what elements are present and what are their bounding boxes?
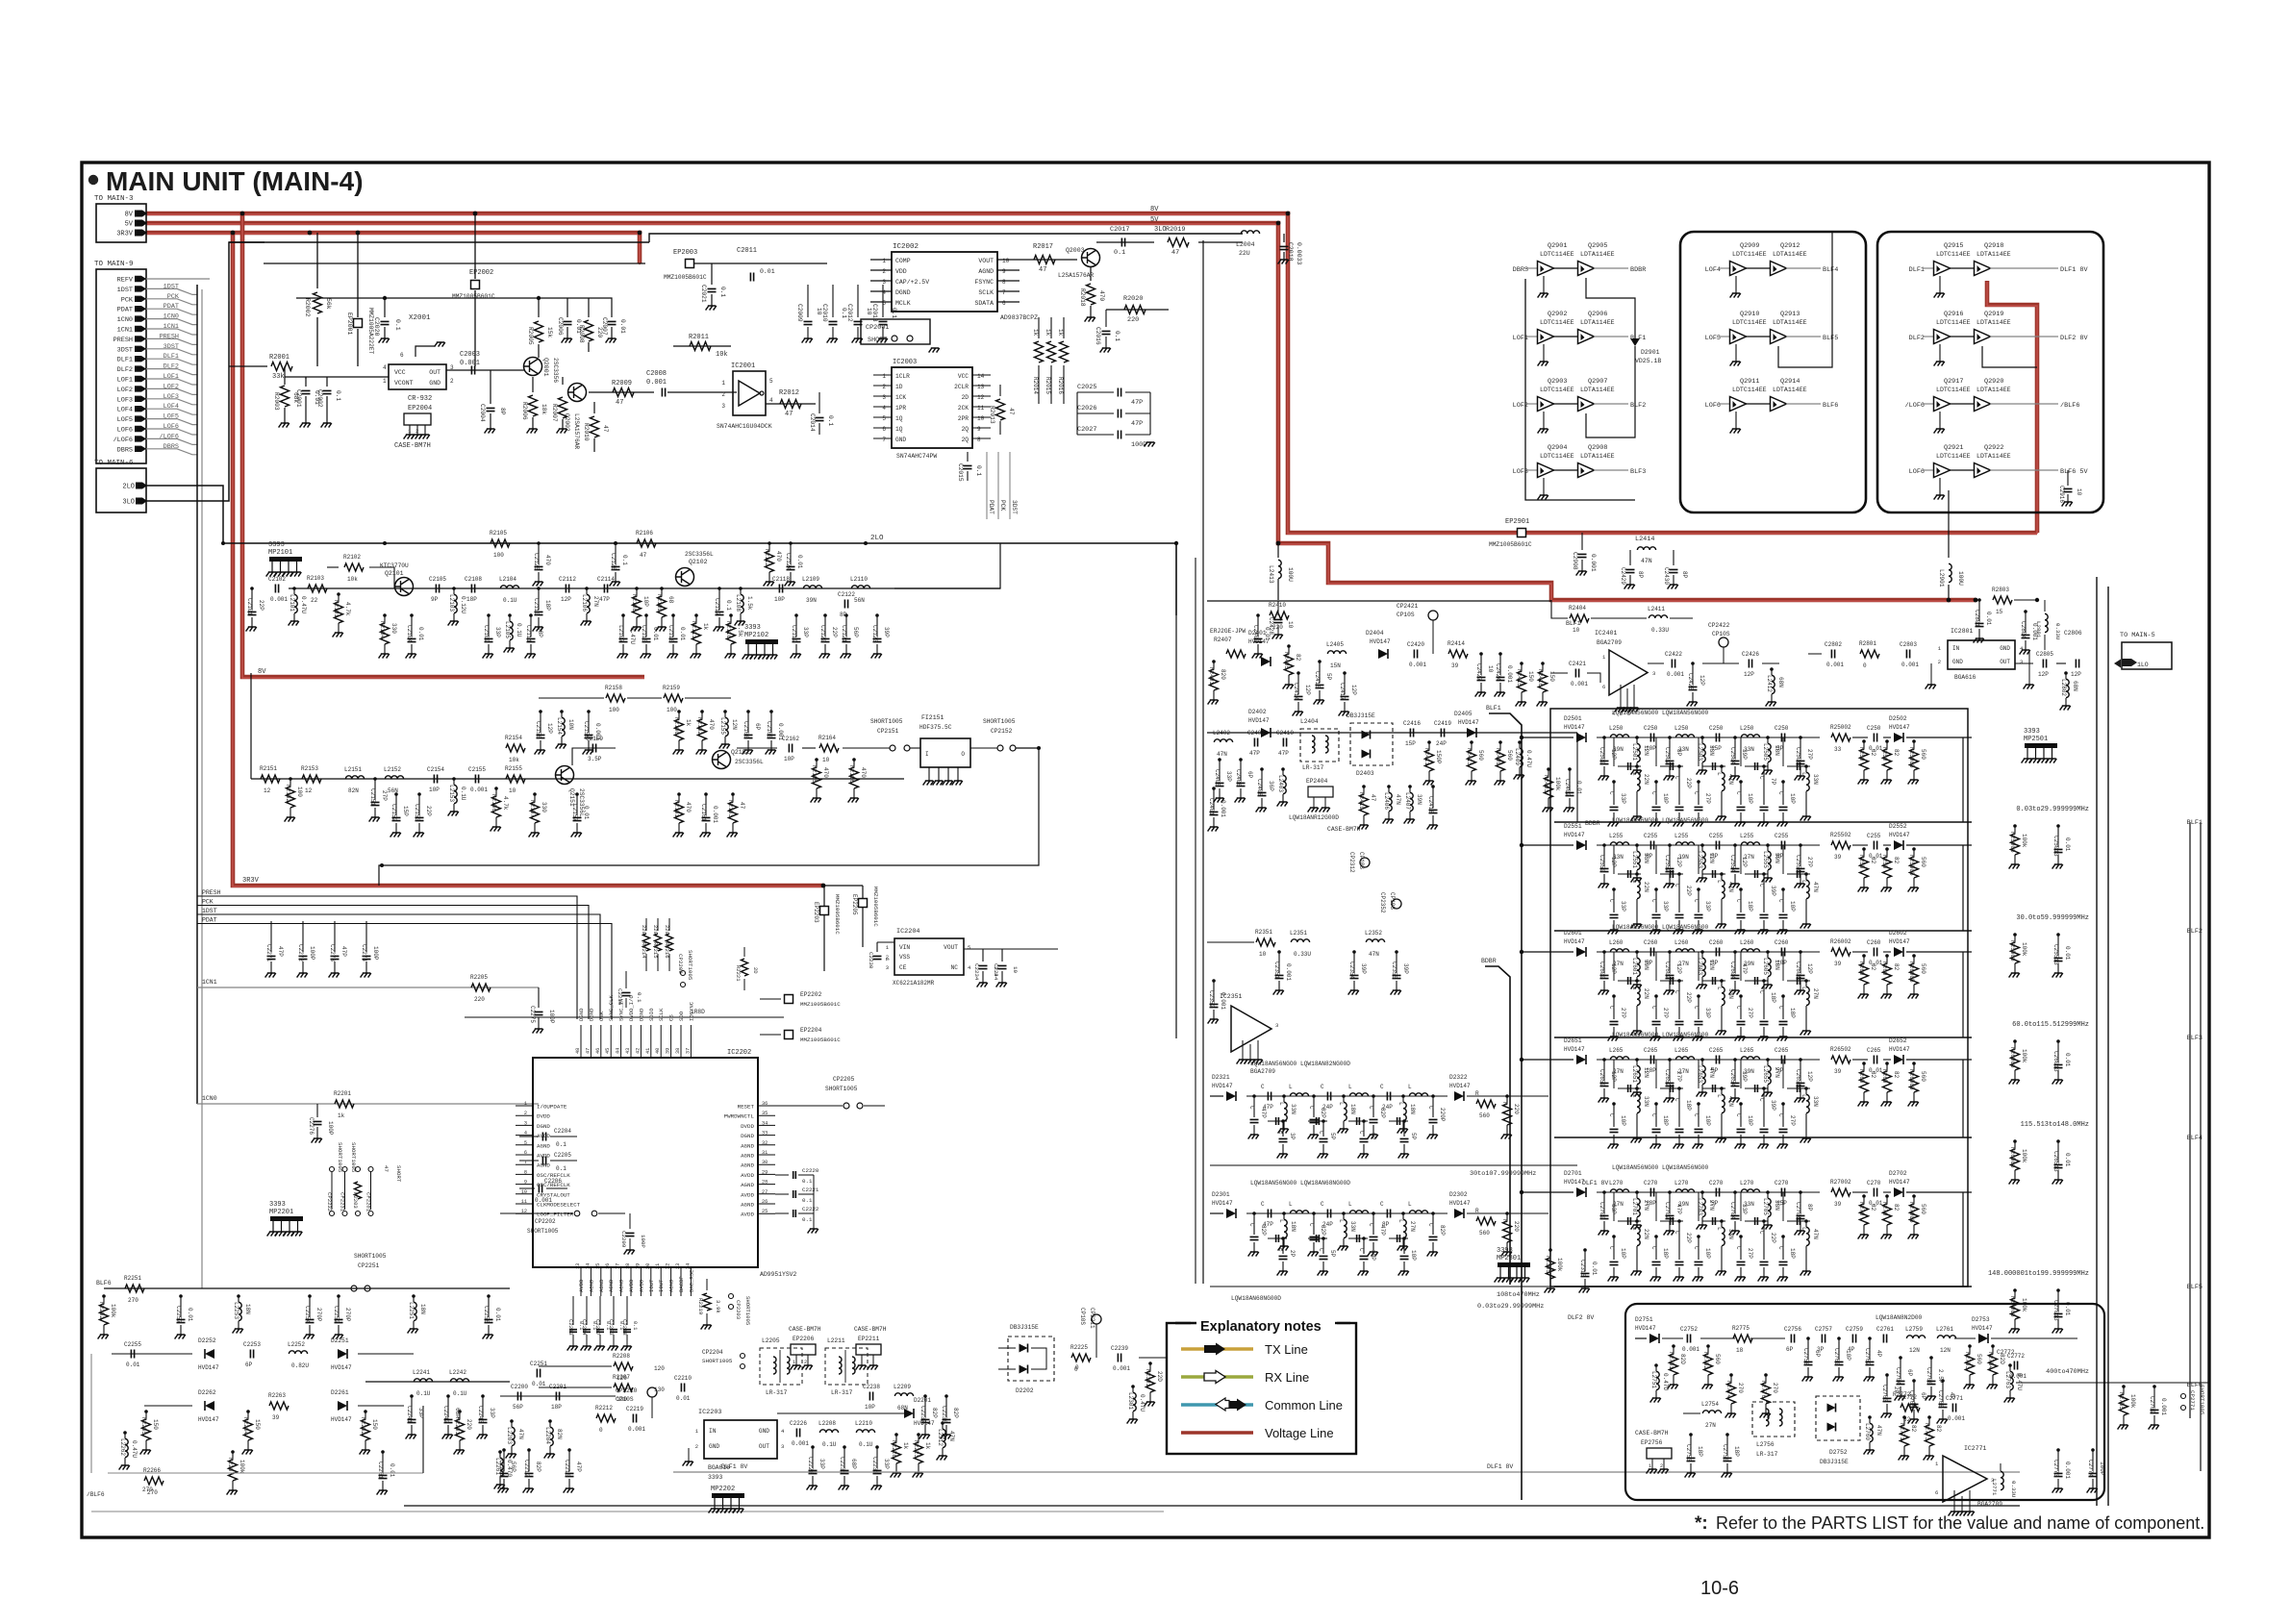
svg-text:R26005: R26005	[1908, 962, 1915, 983]
C2115 0.01	[644, 613, 648, 617]
svg-text:3DST: 3DST	[164, 343, 179, 351]
svg-text:C2156: C2156	[535, 721, 541, 738]
C2804 0.001	[2024, 610, 2027, 613]
svg-text:L2801: L2801	[2035, 621, 2042, 638]
svg-text:100: 100	[609, 707, 619, 713]
R2755 100k	[2122, 1385, 2126, 1388]
R2201 1k	[335, 1100, 354, 1108]
svg-text:VDD: VDD	[895, 268, 907, 275]
svg-text:LOF4: LOF4	[117, 407, 133, 414]
svg-text:C2157: C2157	[571, 804, 578, 821]
R2401 820	[1212, 660, 1216, 663]
svg-text:1Q: 1Q	[895, 415, 903, 422]
svg-text:D2301: D2301	[1212, 1191, 1230, 1198]
group1 outline	[1525, 279, 1635, 500]
svg-text:IN: IN	[1952, 645, 1960, 652]
svg-text:5: 5	[968, 944, 970, 951]
R2157 330	[533, 792, 537, 796]
svg-text:BLF2: BLF2	[1630, 402, 1646, 410]
svg-text:560: 560	[1479, 1112, 1490, 1119]
svg-text:R2301: R2301	[1145, 1369, 1151, 1387]
svg-text:10P: 10P	[1370, 1250, 1376, 1261]
svg-text:R2263: R2263	[268, 1392, 286, 1399]
L2108	[739, 587, 743, 590]
svg-text:18P: 18P	[1789, 1008, 1796, 1018]
svg-text:C: C	[1758, 776, 1765, 780]
svg-text:18P: 18P	[1685, 1100, 1692, 1111]
svg-text:LOF6: LOF6	[164, 423, 179, 431]
svg-text:R: R	[1501, 1219, 1508, 1223]
svg-text:KTC3770U: KTC3770U	[380, 562, 409, 569]
svg-text:10P: 10P	[1620, 1248, 1626, 1259]
svg-text:30: 30	[762, 1160, 768, 1165]
svg-text:R2153: R2153	[301, 765, 318, 772]
svg-text:5P: 5P	[1325, 673, 1332, 681]
svg-text:18N: 18N	[244, 1304, 251, 1314]
svg-text:C: C	[1261, 1201, 1265, 1208]
svg-text:10: 10	[977, 415, 985, 422]
svg-text:0.1: 0.1	[725, 600, 732, 611]
svg-text:220: 220	[664, 925, 670, 935]
svg-text:100P: 100P	[640, 1235, 646, 1248]
svg-text:6: 6	[882, 426, 886, 433]
svg-text:68: 68	[667, 596, 674, 604]
svg-text:15P: 15P	[1776, 1200, 1787, 1207]
svg-text:27N: 27N	[1678, 1068, 1689, 1075]
svg-text:18P: 18P	[1733, 1446, 1740, 1457]
svg-text:3: 3	[524, 1120, 527, 1126]
gnd ic2801	[1930, 663, 1932, 685]
svg-text:7: 7	[882, 437, 886, 443]
svg-text:C2706: C2706	[1795, 1202, 1801, 1219]
ferrite EP2205	[862, 886, 864, 947]
svg-text:C2760: C2760	[1833, 1348, 1840, 1365]
svg-text:100P: 100P	[309, 946, 315, 961]
svg-text:GND: GND	[759, 1428, 769, 1435]
svg-text:C: C	[1398, 1131, 1405, 1135]
svg-text:C2416: C2416	[1403, 720, 1421, 727]
svg-text:8P: 8P	[1806, 1204, 1813, 1212]
svg-text:6P: 6P	[1246, 771, 1253, 779]
svg-text:C250: C250	[1644, 725, 1658, 732]
svg-text:6P: 6P	[754, 723, 761, 731]
svg-text:100P: 100P	[2099, 1462, 2105, 1476]
svg-text:1k: 1k	[1057, 329, 1064, 337]
svg-text:100k: 100k	[2021, 1298, 2027, 1312]
C2758 6P	[1806, 1337, 1810, 1340]
svg-text:L: L	[1278, 1102, 1285, 1106]
svg-text:C: C	[1650, 899, 1657, 903]
svg-text:LDTC114EE: LDTC114EE	[1540, 251, 1574, 258]
C2166 6P	[746, 710, 750, 713]
voltage line 8V drop to RF section	[242, 213, 644, 677]
svg-text:47N: 47N	[1369, 951, 1379, 958]
svg-text:C2354: C2354	[1348, 962, 1355, 979]
BLF row feeds	[1522, 737, 1554, 738]
svg-text:AVDD: AVDD	[628, 1279, 635, 1292]
svg-text:R2228: R2228	[891, 1440, 897, 1458]
svg-text:2: 2	[882, 384, 886, 390]
C2766 2.5P	[1929, 1356, 1933, 1360]
R2103 22	[308, 585, 327, 592]
svg-text:LQW18AN8N2D00: LQW18AN8N2D00	[1876, 1314, 1923, 1321]
svg-text:R2013: R2013	[989, 406, 995, 424]
svg-text:C2241: C2241	[406, 1406, 413, 1423]
svg-text:D2262: D2262	[198, 1389, 216, 1396]
R2410 220	[1270, 612, 1289, 619]
L2104 0.1U	[500, 586, 518, 588]
C2801 0.01	[1977, 598, 1981, 602]
svg-text:NC: NC	[951, 964, 959, 971]
svg-text:L2414: L2414	[1635, 536, 1654, 543]
svg-text:EP2204: EP2204	[800, 1027, 822, 1034]
svg-text:R2009: R2009	[612, 380, 632, 387]
svg-text:D2501: D2501	[1564, 715, 1582, 722]
svg-text:C2004: C2004	[479, 404, 486, 422]
svg-text:C2500: C2500	[1599, 747, 1605, 764]
svg-text:C2552: C2552	[1664, 855, 1671, 872]
svg-text:L2756: L2756	[1756, 1441, 1775, 1448]
svg-text:0.001: 0.001	[1113, 1365, 1130, 1372]
svg-text:CP2312: CP2312	[1348, 852, 1355, 873]
main wire blf6	[104, 1287, 510, 1289]
svg-text:8V: 8V	[125, 212, 134, 219]
ferrite EP2203	[823, 886, 825, 971]
svg-text:L255: L255	[1609, 833, 1624, 839]
svg-text:EP2404: EP2404	[1306, 778, 1328, 785]
svg-text:AGND: AGND	[741, 1182, 754, 1188]
svg-text:27N: 27N	[1744, 854, 1754, 861]
svg-text:CP2206: CP2206	[677, 954, 684, 974]
C2021 0.1	[711, 263, 713, 285]
svg-text:EP2003: EP2003	[673, 249, 697, 257]
C2215 47P	[567, 1448, 571, 1452]
svg-text:LDTC114EE: LDTC114EE	[1936, 319, 1971, 326]
svg-text:3393: 3393	[1497, 1247, 1513, 1255]
svg-text:39P: 39P	[1360, 963, 1367, 974]
svg-text:R26006: R26006	[2009, 1047, 2016, 1068]
svg-text:L2701: L2701	[1631, 1198, 1638, 1215]
svg-text:C2773: C2773	[2052, 1460, 2059, 1477]
R2212 0	[596, 1414, 616, 1422]
svg-text:C: C	[1380, 1201, 1384, 1208]
C2122 8P	[844, 600, 847, 609]
svg-text:C2763: C2763	[1881, 1385, 1888, 1402]
svg-text:VOUT: VOUT	[944, 944, 958, 951]
svg-text:DLF2 8V: DLF2 8V	[2060, 335, 2088, 342]
svg-text:47N: 47N	[1217, 751, 1227, 758]
svg-text:39N: 39N	[1744, 1068, 1754, 1075]
svg-text:39P: 39P	[1402, 963, 1409, 974]
svg-text:5P: 5P	[1711, 1200, 1719, 1207]
svg-text:C2006: C2006	[557, 317, 564, 336]
svg-text:L2101: L2101	[289, 594, 295, 612]
svg-text:Common Line: Common Line	[1265, 1398, 1343, 1412]
svg-text:470: 470	[544, 555, 551, 565]
svg-text:5V: 5V	[1150, 216, 1159, 224]
svg-text:R2154: R2154	[505, 735, 522, 741]
svg-text:1DST: 1DST	[117, 287, 133, 294]
L2109 39N	[803, 586, 821, 588]
Q2003 L2SA1576AR	[1082, 249, 1100, 267]
svg-text:LOOP_FILTER: LOOP_FILTER	[537, 1212, 574, 1218]
svg-text:L2253: L2253	[233, 1302, 239, 1319]
svg-text:36: 36	[762, 1101, 768, 1107]
C2161 0.001	[704, 792, 708, 796]
C2014 0.1	[818, 392, 820, 413]
svg-text:D2502: D2502	[1889, 715, 1907, 722]
svg-text:OSK: OSK	[598, 1011, 605, 1021]
svg-text:10N: 10N	[567, 719, 574, 730]
svg-text:10P: 10P	[1646, 745, 1656, 752]
svg-text:R2019: R2019	[1166, 226, 1185, 234]
C2418 cap	[1431, 785, 1435, 788]
svg-text:220: 220	[474, 996, 485, 1003]
svg-text:47: 47	[785, 411, 793, 418]
svg-text:L: L	[1800, 880, 1807, 884]
RF chain 2 main line	[251, 778, 904, 780]
svg-text:LDTC114EE: LDTC114EE	[1540, 453, 1574, 460]
R2261 220	[458, 1410, 462, 1413]
svg-text:33P: 33P	[494, 627, 501, 637]
svg-text:47: 47	[1171, 249, 1179, 257]
svg-text:35: 35	[762, 1111, 768, 1116]
svg-text:5P: 5P	[1711, 960, 1719, 966]
svg-text:C2422: C2422	[1665, 651, 1682, 658]
svg-text:D2751: D2751	[1635, 1316, 1653, 1323]
svg-text:12P: 12P	[561, 596, 571, 603]
svg-text:560: 560	[1920, 1071, 1926, 1082]
svg-text:BLF1: BLF1	[1566, 620, 1581, 627]
svg-text:8P: 8P	[840, 612, 847, 618]
svg-text:47N: 47N	[1812, 1229, 1819, 1239]
svg-text:0.001: 0.001	[1590, 554, 1597, 572]
svg-text:R25005: R25005	[1908, 747, 1915, 768]
svg-text:R2007: R2007	[551, 404, 558, 422]
svg-text:L2551: L2551	[1631, 851, 1638, 868]
svg-text:100k: 100k	[2129, 1394, 2136, 1409]
svg-text:HVD147: HVD147	[1564, 724, 1585, 731]
svg-text:0.1: 0.1	[802, 1197, 813, 1204]
svg-text:270: 270	[1772, 1383, 1778, 1393]
BLF collection bus	[1489, 713, 1522, 1500]
svg-text:47N: 47N	[1641, 558, 1652, 564]
svg-text:L2404: L2404	[1300, 718, 1319, 725]
svg-text:R2410: R2410	[1269, 602, 1286, 609]
svg-text:12P: 12P	[1806, 963, 1813, 974]
C2243 33P	[481, 1394, 485, 1398]
svg-text:18P: 18P	[1662, 1115, 1669, 1126]
svg-text:OSC/REFCLK: OSC/REFCLK	[537, 1182, 570, 1188]
C2261 0.01	[381, 1450, 385, 1454]
svg-text:100k: 100k	[110, 1304, 116, 1318]
svg-text:3: 3	[882, 279, 886, 286]
svg-text:82: 82	[1870, 963, 1876, 971]
svg-text:LR-317: LR-317	[766, 1389, 788, 1396]
svg-text:39N: 39N	[1613, 746, 1624, 753]
svg-text:39: 39	[272, 1414, 280, 1421]
C2200 56P	[517, 1392, 520, 1401]
wire center	[365, 1381, 510, 1383]
svg-text:0.1U: 0.1U	[822, 1441, 837, 1448]
svg-text:C2230: C2230	[868, 952, 874, 969]
svg-text:L2262: L2262	[119, 1438, 126, 1456]
svg-text:LR-317: LR-317	[1302, 764, 1324, 771]
svg-text:L: L	[1800, 1227, 1807, 1231]
svg-text:CRYSTALOUT: CRYSTALOUT	[537, 1191, 570, 1198]
L2412 68N	[1770, 667, 1774, 671]
svg-text:5P: 5P	[1646, 960, 1653, 966]
svg-text:12P: 12P	[2038, 671, 2049, 678]
svg-text:C2426: C2426	[1742, 651, 1759, 658]
svg-text:PDAT: PDAT	[117, 307, 133, 314]
svg-text:R2752: R2752	[1702, 1352, 1709, 1369]
R2001 33k	[229, 365, 267, 367]
svg-text:C260: C260	[1709, 939, 1724, 946]
svg-text:56k: 56k	[325, 298, 332, 310]
CP2001 SHORT	[861, 319, 930, 344]
svg-text:SHORT1005: SHORT1005	[350, 1142, 357, 1173]
svg-text:D2752: D2752	[1829, 1449, 1848, 1456]
C2257 0.01	[179, 1294, 183, 1298]
buffer interconnects	[1586, 278, 1635, 317]
R2006 18k	[532, 377, 534, 392]
svg-text:SHORT: SHORT	[868, 337, 887, 344]
C2428 10	[1277, 601, 1279, 615]
svg-text:LQW18AN68NG00D: LQW18AN68NG00D	[1231, 1295, 1281, 1302]
svg-text:L255: L255	[1674, 833, 1689, 839]
filter bank row BLF2	[1554, 844, 1573, 846]
svg-text:7: 7	[524, 1160, 527, 1165]
svg-text:L2154: L2154	[556, 717, 563, 735]
svg-text:27N: 27N	[1613, 1201, 1624, 1208]
svg-text:C2210: C2210	[674, 1375, 692, 1382]
svg-text:120: 120	[654, 1365, 665, 1372]
svg-text:5P: 5P	[1711, 1067, 1719, 1074]
svg-text:1CN1: 1CN1	[202, 979, 217, 986]
svg-text:C2804: C2804	[2020, 621, 2027, 638]
L2403 cap	[1281, 767, 1285, 771]
svg-text:0.01: 0.01	[619, 319, 626, 334]
svg-text:3: 3	[2020, 659, 2023, 665]
svg-text:1CN0: 1CN0	[164, 313, 179, 321]
svg-text:R2773: R2773	[1924, 1423, 1930, 1440]
svg-text:C2256: C2256	[483, 1306, 490, 1323]
svg-text:2SC3356L: 2SC3356L	[735, 759, 764, 765]
svg-text:8P: 8P	[1637, 571, 1644, 579]
svg-text:82: 82	[1870, 749, 1876, 757]
C2802 0.001	[1831, 650, 1834, 659]
C2112 12P	[566, 585, 568, 593]
svg-text:R2164: R2164	[818, 735, 836, 741]
R2262 150	[364, 1410, 367, 1413]
svg-text:0.001: 0.001	[1506, 665, 1513, 683]
transformer L2756 LR-317	[1752, 1402, 1795, 1437]
svg-text:0.01: 0.01	[1264, 627, 1271, 641]
svg-text:AD9951YSV2: AD9951YSV2	[760, 1271, 797, 1278]
svg-text:4: 4	[524, 1131, 527, 1137]
svg-text:4: 4	[769, 397, 773, 404]
D2262 HVD147	[205, 1401, 214, 1411]
svg-text:470: 470	[1098, 290, 1105, 301]
svg-text:LDTC114EE: LDTC114EE	[1936, 453, 1971, 460]
C2117	[718, 587, 721, 590]
svg-text:MMZ1005B601C: MMZ1005B601C	[800, 1037, 841, 1043]
C2419 24P	[1441, 729, 1444, 737]
C2006 0.01	[566, 306, 568, 317]
svg-text:C2151: C2151	[369, 788, 376, 806]
svg-text:0.47U: 0.47U	[1525, 750, 1532, 767]
svg-text:82P: 82P	[952, 1408, 959, 1418]
svg-text:3393: 3393	[268, 541, 285, 549]
svg-text:VCONT: VCONT	[394, 380, 414, 387]
svg-text:BDBR: BDBR	[1630, 266, 1646, 274]
svg-text:L265: L265	[1609, 1047, 1624, 1054]
svg-text:27P: 27P	[381, 790, 388, 801]
svg-text:C: C	[1777, 1113, 1784, 1117]
svg-text:56N: 56N	[854, 597, 865, 604]
C2430 8P	[1673, 550, 1674, 565]
svg-text:C: C	[1693, 791, 1699, 795]
svg-text:D2322: D2322	[1449, 1074, 1468, 1081]
svg-text:VSS: VSS	[899, 954, 910, 961]
R2002 56k	[316, 233, 318, 288]
svg-text:L2655: L2655	[1762, 1065, 1769, 1083]
svg-text:DVDD: DVDD	[741, 1123, 754, 1130]
svg-text:R2776: R2776	[1760, 1381, 1767, 1398]
svg-text:560: 560	[1920, 857, 1926, 867]
L2101 0.47U	[292, 587, 296, 590]
svg-text:R2015: R2015	[1045, 377, 1051, 394]
C2352 0.001	[1212, 979, 1216, 983]
svg-text:C2417: C2417	[1339, 683, 1346, 700]
RF chain 1 main line	[289, 587, 1000, 589]
svg-text:GND: GND	[895, 437, 906, 443]
svg-text:HVD147: HVD147	[1370, 638, 1391, 645]
svg-text:C2419: C2419	[1434, 720, 1451, 727]
svg-text:10P: 10P	[1845, 1350, 1851, 1361]
svg-text:IC2001: IC2001	[731, 362, 755, 370]
svg-text:8V: 8V	[1150, 206, 1159, 213]
R2409 560	[1498, 740, 1502, 744]
svg-text:10: 10	[2076, 488, 2082, 496]
svg-text:LOF5: LOF5	[1705, 335, 1721, 342]
svg-text:HDF375.5C: HDF375.5C	[919, 724, 952, 731]
svg-text:10P: 10P	[1789, 793, 1796, 804]
svg-text:2Q: 2Q	[962, 426, 969, 433]
svg-text:CP2204: CP2204	[702, 1349, 723, 1356]
svg-text:HVD147: HVD147	[1449, 1200, 1471, 1207]
svg-text:C2405: C2405	[1214, 769, 1221, 787]
svg-text:C: C	[1318, 1131, 1324, 1135]
svg-text:DBRS: DBRS	[164, 443, 179, 451]
svg-text:C2102: C2102	[268, 576, 286, 583]
svg-text:22N: 22N	[1643, 988, 1649, 999]
svg-text:C2235: C2235	[919, 1406, 926, 1423]
svg-text:270P: 270P	[315, 1308, 322, 1322]
svg-text:PCK: PCK	[202, 899, 214, 906]
L2151 82N	[345, 776, 364, 779]
svg-text:AVDD: AVDD	[537, 1133, 550, 1139]
svg-text:10P: 10P	[1704, 1248, 1711, 1259]
C2760 10P	[1837, 1337, 1841, 1340]
svg-text:10P: 10P	[1789, 901, 1796, 912]
svg-text:47N: 47N	[517, 1429, 524, 1439]
svg-text:L: L	[1278, 1219, 1285, 1223]
svg-text:L2103: L2103	[448, 594, 455, 612]
C2158 0.001	[587, 710, 591, 713]
svg-text:C270: C270	[1709, 1180, 1724, 1187]
